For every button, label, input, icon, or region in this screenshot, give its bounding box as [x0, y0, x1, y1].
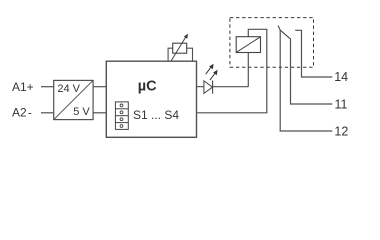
wire uC to LED: [197, 86, 249, 88]
svg-text:5 V: 5 V: [73, 106, 90, 118]
svg-text:24 V: 24 V: [57, 83, 80, 95]
relay coil K1 box: [236, 37, 260, 53]
LED emission arrow 1: [206, 67, 211, 74]
DIP switch S1..S4 body: [115, 102, 128, 129]
potentiometer arrow: [171, 37, 185, 61]
coil diagonal: [236, 37, 260, 52]
LED cathode bar: [212, 81, 214, 94]
wire common terminal to 11: [291, 39, 333, 104]
LED emission arrow 2: [210, 73, 215, 80]
svg-text:A2-: A2-: [12, 106, 32, 120]
DIP switch actuators: [120, 104, 123, 107]
wire NC terminal to 12: [280, 30, 332, 131]
relay K1 dashed enclosure: [230, 18, 314, 68]
relay contact blade: [278, 26, 291, 40]
wire coil bottom to LED net: [247, 53, 249, 87]
svg-text:11: 11: [335, 98, 348, 112]
wire potentiometer bracket: [168, 48, 192, 61]
svg-text:14: 14: [334, 70, 348, 84]
microcontroller U2 box: [106, 61, 196, 137]
DC/DC converter U1 box 24V->5V: [54, 80, 93, 119]
wire NO terminal to 14: [295, 30, 332, 77]
LED D1 triangle: [204, 81, 213, 94]
wire A2- to converter: [41, 112, 54, 114]
wire converter to uC (bottom): [93, 112, 106, 114]
wire A1+ to converter: [41, 86, 54, 88]
potentiometer R1 body: [173, 43, 187, 53]
svg-text:µC: µC: [138, 78, 157, 94]
wire converter to uC (top): [93, 86, 106, 88]
converter diagonal: [54, 81, 93, 120]
wire coil top loop to uC (net over 11-row): [197, 29, 267, 113]
svg-text:S1 ... S4: S1 ... S4: [133, 108, 179, 122]
svg-text:A1+: A1+: [12, 80, 34, 94]
svg-text:12: 12: [334, 125, 348, 139]
